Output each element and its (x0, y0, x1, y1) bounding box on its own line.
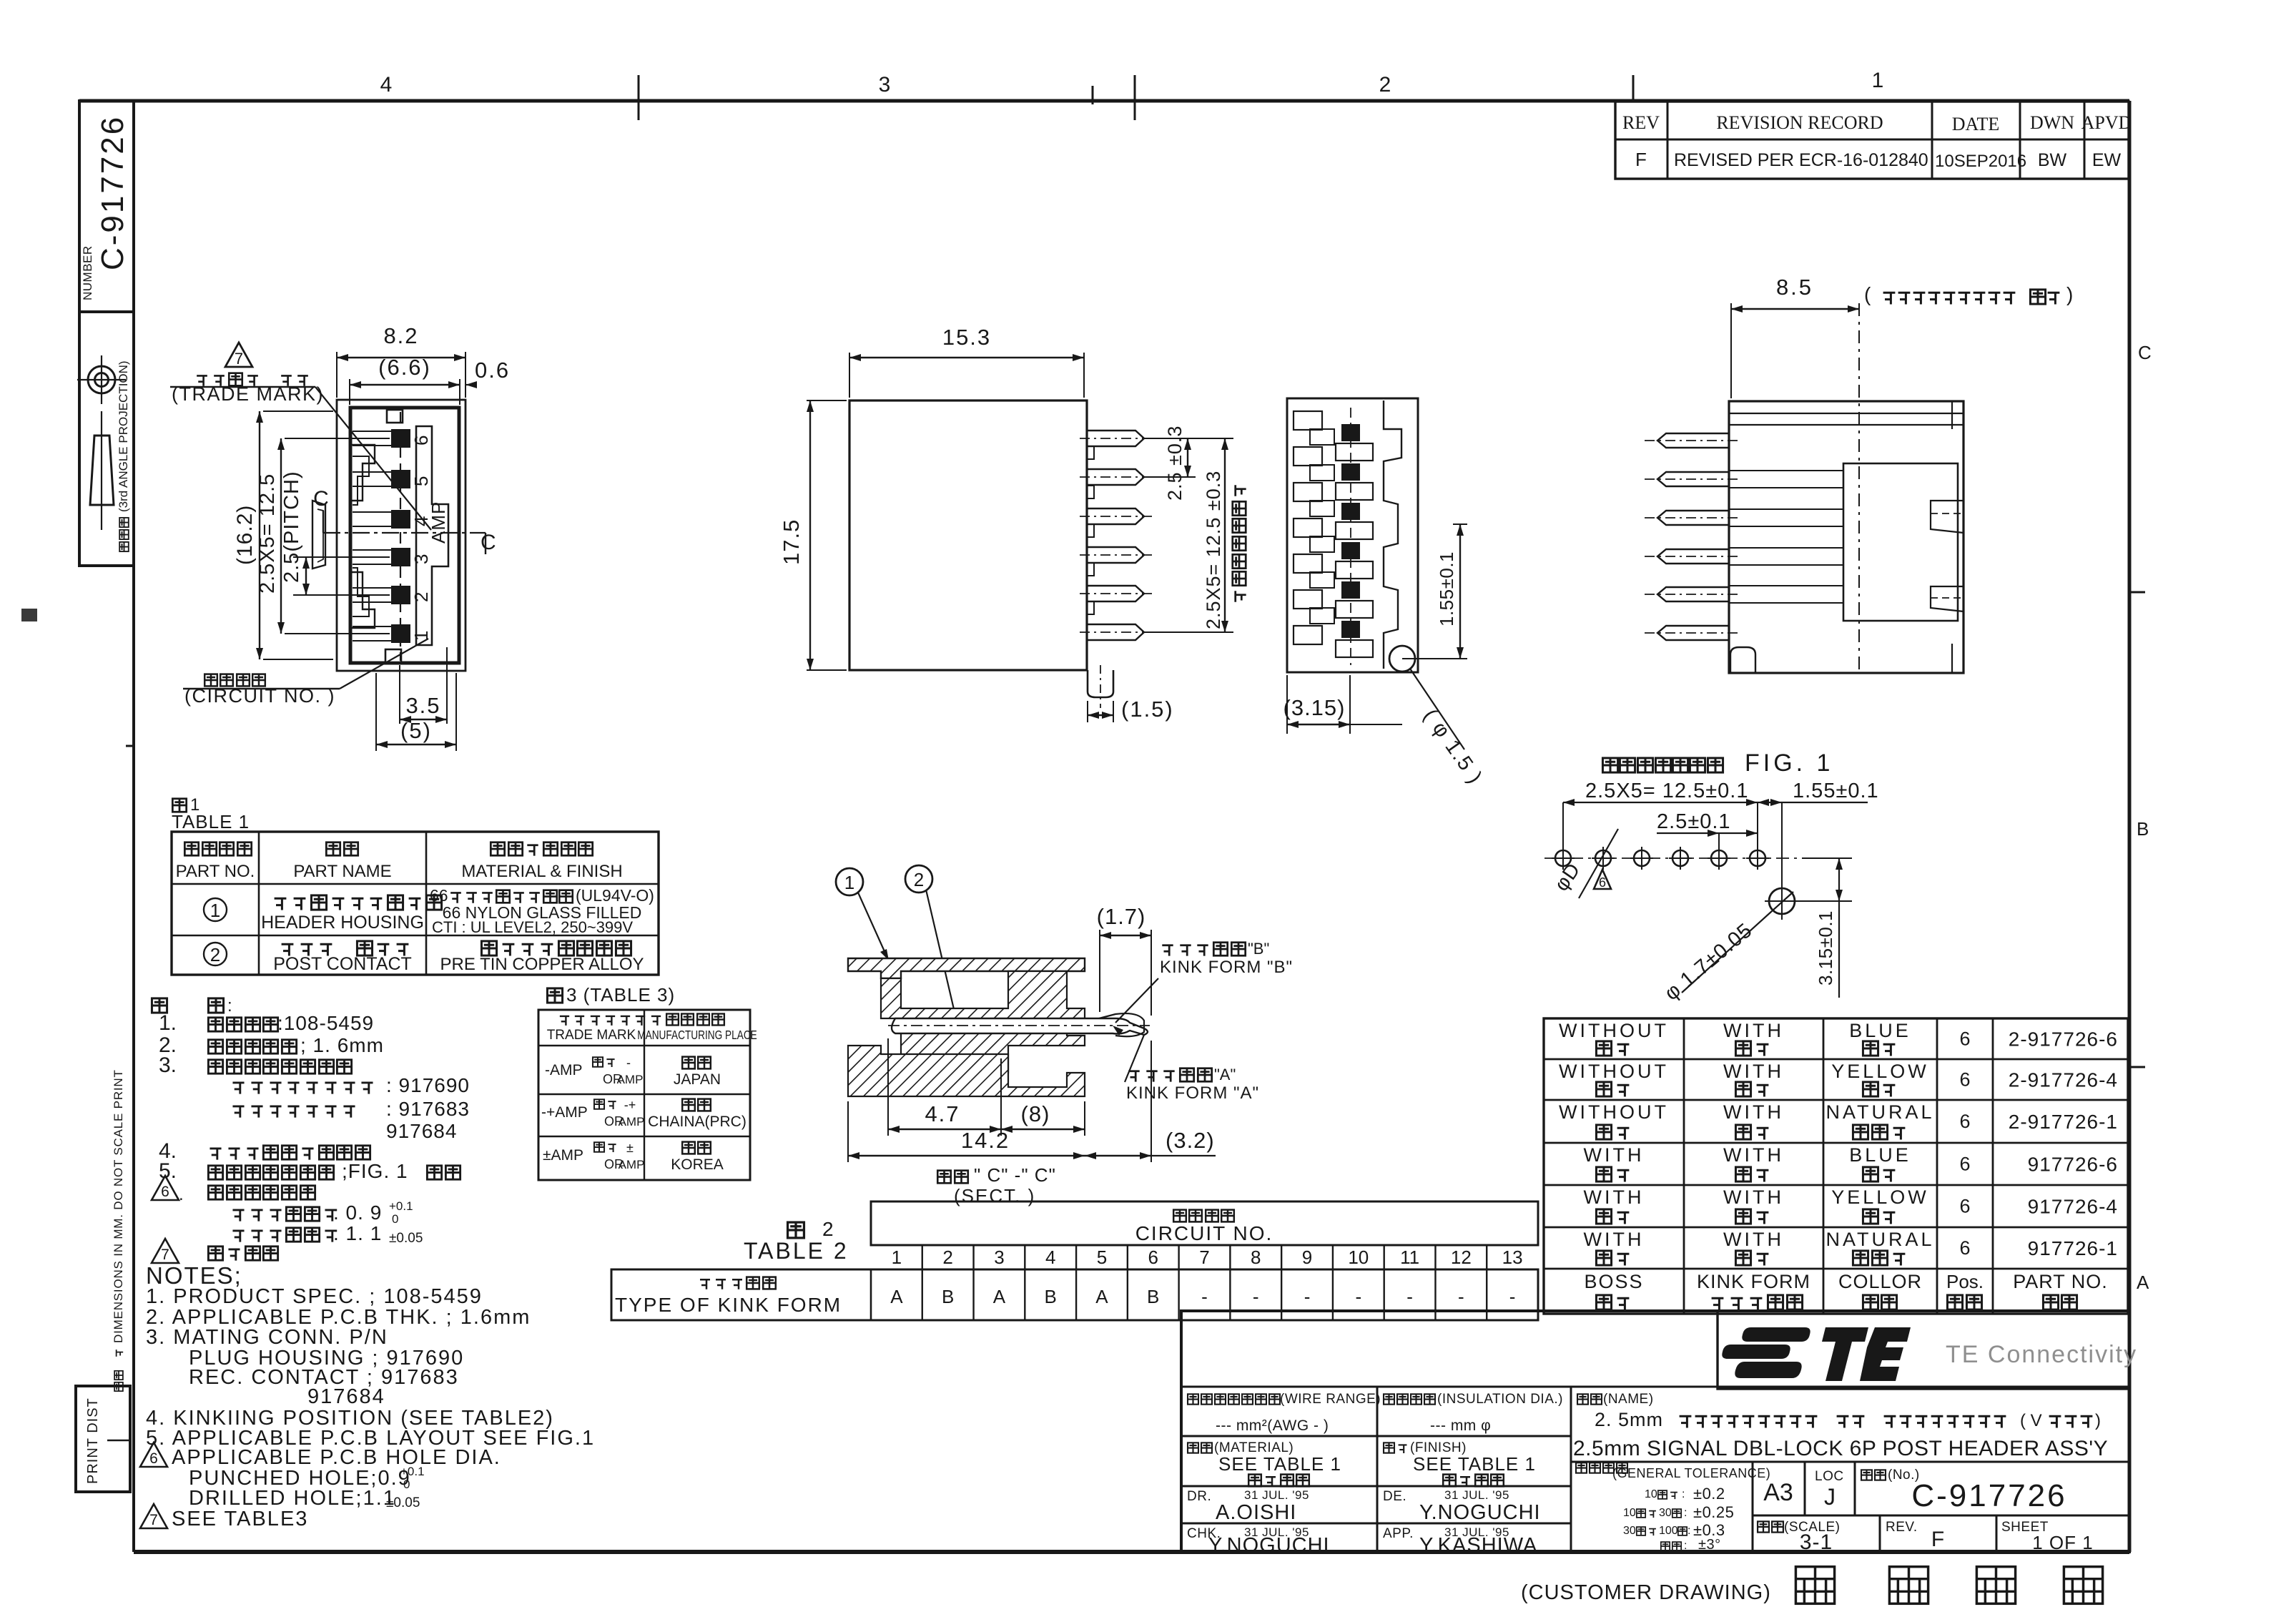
projection symbol cone (90, 436, 114, 505)
svg-text:0: 0 (392, 1212, 398, 1226)
svg-text:4.7: 4.7 (925, 1101, 960, 1126)
svg-text:WITH: WITH (1584, 1186, 1645, 1208)
triangle 7 flag (225, 343, 252, 367)
svg-text::108-5459: :108-5459 (277, 1012, 374, 1034)
svg-text:DIMENSIONS IN MM. DO NOT SCALE: DIMENSIONS IN MM. DO NOT SCALE PRINT (112, 1069, 125, 1343)
scale rev sheet row (1879, 1515, 1881, 1553)
fig1 dim 3.15 vertical (1838, 858, 1840, 998)
svg-text:(1.7): (1.7) (1097, 904, 1146, 929)
svg-text::: : (1682, 1488, 1685, 1500)
notes jp heading (152, 998, 167, 1013)
svg-text:3. MATING CONN. P/N: 3. MATING CONN. P/N (146, 1326, 388, 1349)
third angle projection box (79, 312, 134, 566)
svg-text:2.5X5= 12.5±0.1: 2.5X5= 12.5±0.1 (1585, 780, 1748, 802)
svg-text:B: B (942, 1286, 954, 1307)
svg-text:0.6: 0.6 (475, 358, 510, 383)
svg-text:6: 6 (1599, 875, 1606, 890)
section dim 8 (1001, 1129, 1085, 1130)
svg-text:2-917726-4: 2-917726-4 (2009, 1069, 2118, 1091)
number box strip (79, 101, 134, 312)
svg-text::: : (1684, 1507, 1687, 1519)
view4 top wall lines (1729, 413, 1964, 414)
svg-text:3: 3 (879, 73, 891, 97)
svg-text:-AMP: -AMP (545, 1062, 583, 1078)
view1 dim 12.5 (285, 438, 390, 439)
svg-text:B: B (1045, 1286, 1057, 1307)
svg-text:8.5: 8.5 (1776, 275, 1813, 300)
svg-text:Y.NOGUCHI: Y.NOGUCHI (1419, 1501, 1541, 1524)
print dist box (76, 1386, 130, 1492)
svg-text:6: 6 (410, 436, 432, 446)
svg-text:KINK FORM: KINK FORM (1697, 1271, 1810, 1292)
svg-text:2: 2 (822, 1218, 834, 1240)
svg-text:±0.25: ±0.25 (1693, 1503, 1734, 1521)
view3 rear housing outline (1287, 398, 1418, 672)
view3 left comb slots (1294, 411, 1322, 430)
svg-text:9: 9 (1302, 1247, 1312, 1268)
svg-text:TRADE MARK: TRADE MARK (547, 1028, 636, 1043)
title block outer (1181, 1311, 2129, 1552)
svg-text:7: 7 (1199, 1247, 1209, 1268)
svg-text:C: C (2138, 342, 2152, 363)
svg-text:: 0. 9: : 0. 9 (333, 1201, 382, 1224)
view2 bottom boss (1088, 670, 1113, 697)
svg-text:B: B (2137, 818, 2149, 840)
svg-text:3.5: 3.5 (405, 693, 440, 718)
view2 edge notches between pins (1087, 446, 1094, 459)
view3 phi 1.5 callout (1410, 669, 1464, 749)
svg-text:A3: A3 (1763, 1479, 1793, 1506)
svg-text:(CUSTOMER DRAWING): (CUSTOMER DRAWING) (1521, 1581, 1771, 1604)
svg-text:(16.2): (16.2) (233, 505, 257, 565)
svg-text:( V: ( V (2020, 1411, 2042, 1430)
svg-text:MANUFACTURING PLACE: MANUFACTURING PLACE (637, 1029, 757, 1043)
view1 pin slot lines (353, 431, 391, 432)
svg-text:11: 11 (1400, 1247, 1419, 1268)
svg-text:(WIRE RANGE): (WIRE RANGE) (1280, 1392, 1381, 1407)
svg-text:REV.: REV. (1886, 1520, 1918, 1535)
svg-text:AMP: AMP (619, 1115, 645, 1129)
table1 row1 (204, 898, 227, 921)
svg-text:2: 2 (410, 592, 432, 602)
svg-text:CTI : UL LEVEL2, 250~399V: CTI : UL LEVEL2, 250~399V (432, 918, 633, 936)
svg-text:3-1: 3-1 (1800, 1530, 1833, 1554)
svg-text:917684: 917684 (307, 1385, 385, 1408)
finish cell (1384, 1442, 1394, 1453)
svg-text:SEE TABLE3: SEE TABLE3 (172, 1508, 308, 1530)
svg-text:4: 4 (380, 73, 393, 97)
section pin kink bulge (1099, 1013, 1144, 1036)
svg-text:±3°: ±3° (1698, 1537, 1721, 1553)
svg-text:(5): (5) (400, 718, 432, 743)
view4 pin slots interior (1729, 471, 1843, 488)
view3 dim 1.55 (1402, 658, 1467, 659)
svg-text:17.5: 17.5 (779, 519, 804, 565)
svg-text:PRINT DIST: PRINT DIST (85, 1397, 101, 1484)
view2 dim 12.5 right (1144, 631, 1233, 633)
section dim 4.7 (887, 1038, 889, 1136)
table2 circuit no header box (871, 1201, 1538, 1245)
svg-text:COLLOR: COLLOR (1838, 1271, 1922, 1292)
trade mark callout (197, 375, 207, 385)
section pin contact (892, 1018, 1148, 1035)
svg-text:±0.05: ±0.05 (389, 1231, 423, 1246)
section body top flange hatched (848, 958, 1085, 978)
svg-text:6: 6 (149, 1450, 158, 1467)
svg-text:±AMP: ±AMP (543, 1147, 583, 1164)
wire range cell (1181, 1386, 1718, 1388)
svg-text:--- mm φ: --- mm φ (1430, 1417, 1491, 1434)
table1 header texts (184, 842, 198, 855)
table1 title (172, 799, 186, 812)
svg-text:REVISED PER ECR-16-012840: REVISED PER ECR-16-012840 (1674, 150, 1928, 170)
note jp 6a (232, 1210, 244, 1222)
svg-text:10: 10 (1348, 1247, 1369, 1268)
svg-text:PART NO.: PART NO. (176, 862, 255, 881)
svg-text:: 917683: : 917683 (386, 1098, 470, 1120)
svg-text:C-917726: C-917726 (95, 115, 130, 270)
fig1 triangle 6 flag (1594, 870, 1611, 889)
svg-text:2-917726-6: 2-917726-6 (2009, 1028, 2118, 1051)
view4 right interior tabs (1931, 501, 1964, 533)
svg-text:DATE: DATE (1952, 114, 1999, 134)
view2 dim 1.5 bottom (1087, 701, 1088, 722)
fig1 phi17 callout (1682, 911, 1772, 993)
svg-text:1 OF 1: 1 OF 1 (2032, 1532, 2093, 1553)
svg-text:A: A (993, 1286, 1006, 1307)
table1 row2 (204, 943, 227, 965)
note jp 6 triangle (152, 1176, 179, 1200)
svg-text:6: 6 (1959, 1196, 1970, 1217)
svg-text:"A": "A" (1214, 1066, 1236, 1083)
svg-text:CIRCUIT NO.: CIRCUIT NO. (1135, 1222, 1273, 1244)
te logo TE letters (1822, 1327, 1868, 1381)
svg-text:DRILLED HOLE;1.1: DRILLED HOLE;1.1 (189, 1487, 396, 1510)
svg-text:LOC: LOC (1815, 1469, 1844, 1484)
view4 bottom boss (1730, 647, 1755, 673)
svg-text:A: A (890, 1286, 903, 1307)
svg-text:TABLE 2: TABLE 2 (744, 1238, 849, 1264)
note jp 3b (232, 1106, 244, 1118)
a3 loc no cells (1570, 1462, 1572, 1553)
svg-text:5: 5 (410, 476, 432, 486)
svg-text:J: J (1824, 1484, 1836, 1510)
svg-text:+0.1: +0.1 (400, 1465, 425, 1478)
svg-text:1.55±0.1: 1.55±0.1 (1793, 780, 1879, 802)
svg-text:1: 1 (1872, 69, 1884, 92)
svg-text:NATURAL: NATURAL (1826, 1101, 1934, 1123)
view2 dim 15.3 (849, 353, 850, 398)
svg-text:1. PRODUCT SPEC. ; 108-5459: 1. PRODUCT SPEC. ; 108-5459 (146, 1285, 483, 1308)
svg-text:(NAME): (NAME) (1603, 1392, 1654, 1407)
svg-text:A: A (2137, 1272, 2149, 1293)
view3 dim 3.15 (1286, 675, 1288, 734)
fig1 big hole (1769, 888, 1795, 914)
section dim 3.2 (1151, 1041, 1152, 1162)
svg-text:1: 1 (210, 900, 220, 921)
svg-text:3.: 3. (159, 1053, 177, 1077)
svg-text:1.55±0.1: 1.55±0.1 (1436, 551, 1457, 626)
table3 headers (560, 1016, 569, 1026)
svg-text:+0.1: +0.1 (389, 1199, 413, 1213)
svg-text:KOREA: KOREA (671, 1156, 724, 1173)
svg-text:1: 1 (892, 1247, 902, 1268)
te logo box (1718, 1311, 2129, 1389)
view3 inner comb second col (1310, 429, 1334, 445)
svg-text:(6.6): (6.6) (378, 355, 431, 380)
view1 dim 3.5 bottom (399, 665, 400, 724)
svg-text:YELLOW: YELLOW (1831, 1186, 1929, 1208)
fig1 main dim line (1563, 802, 1868, 803)
svg-text:-: - (626, 1056, 631, 1070)
svg-text:WITH: WITH (1584, 1144, 1645, 1166)
fig1 hole row (1544, 857, 1816, 859)
svg-text:C-917726: C-917726 (1911, 1478, 2066, 1513)
svg-text:WITH: WITH (1723, 1020, 1784, 1041)
svg-text:WITHOUT: WITHOUT (1559, 1061, 1669, 1082)
view3 right wall profile (1384, 400, 1401, 669)
view2 pins right side (1087, 431, 1144, 446)
svg-text:6: 6 (1148, 1247, 1158, 1268)
svg-text:2: 2 (210, 944, 220, 965)
svg-text:6: 6 (1959, 1237, 1970, 1259)
view1 dim (5) bottom (375, 673, 377, 751)
svg-text:2: 2 (1379, 73, 1391, 97)
table2 number row (871, 1244, 1538, 1247)
svg-text:7: 7 (161, 1247, 169, 1263)
svg-text:.: . (179, 1185, 184, 1204)
svg-text:TABLE 1: TABLE 1 (172, 811, 250, 832)
svg-text:C: C (313, 487, 329, 511)
svg-text:31 JUL. '95: 31 JUL. '95 (1244, 1488, 1309, 1502)
dr cell (1181, 1485, 1571, 1488)
material cell (1181, 1435, 1571, 1437)
svg-text:(INSULATION DIA.): (INSULATION DIA.) (1437, 1392, 1563, 1407)
svg-text:-+: -+ (624, 1098, 636, 1112)
svg-text:WITHOUT: WITHOUT (1559, 1020, 1669, 1041)
svg-text:2-917726-1: 2-917726-1 (2009, 1111, 2118, 1133)
svg-text:PART NAME: PART NAME (293, 862, 391, 881)
svg-text:±0.05: ±0.05 (386, 1495, 420, 1510)
svg-text::: : (227, 996, 232, 1016)
svg-text:6: 6 (1959, 1111, 1970, 1132)
svg-text:6: 6 (161, 1184, 169, 1200)
svg-text:-: - (1355, 1286, 1361, 1307)
svg-text:2.5mm SIGNAL DBL-LOCK 6P POST: 2.5mm SIGNAL DBL-LOCK 6P POST HEADER ASS… (1573, 1437, 2108, 1460)
svg-text:BLUE: BLUE (1849, 1144, 1911, 1166)
svg-text:BW: BW (2038, 150, 2067, 170)
svg-text:MATERIAL & FINISH: MATERIAL & FINISH (461, 862, 622, 881)
svg-text:1: 1 (844, 872, 854, 893)
te logo bars (1722, 1327, 1911, 1381)
svg-text:B: B (1147, 1286, 1159, 1307)
svg-text:APVD: APVD (2081, 112, 2132, 133)
svg-text:8.2: 8.2 (383, 323, 418, 348)
svg-text:(: ( (1864, 283, 1871, 305)
svg-text:917684: 917684 (386, 1120, 457, 1142)
zone ticks right border (2129, 591, 2145, 594)
svg-text:DE.: DE. (1383, 1489, 1406, 1504)
svg-text:F: F (1931, 1528, 1944, 1551)
view4 housing body (1729, 401, 1964, 673)
view1 center trapezoid tab (312, 501, 325, 569)
svg-text:(UL94V-O): (UL94V-O) (576, 886, 654, 905)
svg-text:15.3: 15.3 (942, 325, 991, 350)
view1 pin squares 1-6 (391, 429, 410, 448)
table3 title (547, 988, 562, 1003)
svg-text:Y.KASHIWA: Y.KASHIWA (1419, 1534, 1537, 1557)
section body core hatched (881, 971, 1085, 1073)
section view part callout 2 (905, 865, 932, 893)
svg-text:: 917690: : 917690 (386, 1074, 470, 1096)
svg-text:100: 100 (1659, 1525, 1678, 1537)
svg-text:EW: EW (2092, 150, 2122, 170)
view4 right edge step (1951, 401, 1953, 429)
svg-text:5: 5 (1097, 1247, 1107, 1268)
svg-text:2.5 ±0.3: 2.5 ±0.3 (1164, 426, 1186, 501)
svg-text:F: F (1635, 149, 1647, 170)
svg-text:BLUE: BLUE (1849, 1020, 1911, 1041)
view2 housing body (849, 400, 1087, 670)
view1 section line C-C dash-dot (323, 532, 486, 534)
svg-text:AMP: AMP (619, 1158, 645, 1171)
svg-text:30: 30 (1659, 1507, 1672, 1519)
svg-text:30: 30 (1623, 1525, 1636, 1537)
view1 bottom notch (385, 649, 401, 662)
svg-text:" C" -" C": " C" -" C" (974, 1164, 1056, 1186)
svg-text:8: 8 (1251, 1247, 1261, 1268)
svg-text:WITH: WITH (1723, 1186, 1784, 1208)
svg-text:CHAINA(PRC): CHAINA(PRC) (648, 1114, 747, 1130)
svg-text:4: 4 (1045, 1247, 1055, 1268)
view1 dim 16.2 (263, 411, 333, 412)
section body lower wall hatched (848, 1046, 1085, 1096)
svg-text:-: - (1458, 1286, 1464, 1307)
note en 7 triangle (140, 1504, 167, 1528)
svg-text:13: 13 (1502, 1247, 1523, 1268)
svg-text:2.5±0.1: 2.5±0.1 (1657, 810, 1731, 833)
zone ticks top border (638, 75, 640, 120)
view2 dim 17.5 (807, 400, 847, 401)
svg-text:APPLICABLE P.C.B HOLE DIA.: APPLICABLE P.C.B HOLE DIA. (172, 1446, 501, 1469)
circuit no callout (205, 674, 217, 687)
svg-text:KINK FORM "B": KINK FORM "B" (1160, 958, 1293, 977)
svg-text:(3.15): (3.15) (1284, 695, 1346, 720)
svg-text:WITH: WITH (1723, 1101, 1784, 1123)
view1 left mating profile zigzag (350, 445, 375, 501)
view3 center pins alternating (1341, 424, 1360, 441)
view3 bottom circle boss (1389, 646, 1415, 672)
table2 label (788, 1222, 804, 1238)
svg-text:3 (TABLE 3): 3 (TABLE 3) (566, 984, 675, 1006)
svg-text:PRE TIN COPPER ALLOY: PRE TIN COPPER ALLOY (440, 955, 644, 974)
svg-text:-: - (1304, 1286, 1311, 1307)
view4 dim 8.5 (1730, 303, 1732, 398)
zone tick left border (126, 745, 134, 747)
svg-text:10: 10 (1645, 1488, 1657, 1500)
svg-text:7: 7 (149, 1512, 158, 1528)
section title (937, 1171, 950, 1184)
insulation dia cell (1384, 1394, 1394, 1404)
svg-text:14.2: 14.2 (961, 1128, 1010, 1153)
svg-text:Y.NOGUCHI: Y.NOGUCHI (1208, 1534, 1330, 1557)
section kink form A label (1128, 1071, 1139, 1082)
part number table (1544, 1018, 2128, 1314)
view4 pins left side (1657, 433, 1729, 448)
view4 center big slot (1843, 463, 1958, 621)
svg-text::: : (1684, 1540, 1687, 1552)
left margin stray mark (21, 609, 37, 621)
svg-text:YELLOW: YELLOW (1831, 1061, 1929, 1082)
fig1 title jp (1602, 758, 1617, 772)
section dim 14.2 (847, 1101, 849, 1162)
svg-text:6: 6 (1959, 1154, 1970, 1175)
projection symbol circle (88, 366, 115, 393)
svg-text:APP.: APP. (1383, 1526, 1414, 1541)
svg-text:; 1. 6mm: ; 1. 6mm (300, 1034, 384, 1056)
table3 grid (538, 1010, 750, 1180)
svg-text:(3rd ANGLE PROJECTION): (3rd ANGLE PROJECTION) (117, 360, 130, 512)
note en 6 triangle (140, 1442, 167, 1467)
section view part callout 1 (836, 868, 863, 895)
svg-text:WITH: WITH (1584, 1229, 1645, 1250)
svg-text:--- mm²(AWG - ): --- mm²(AWG - ) (1216, 1417, 1329, 1434)
table1 grid (172, 832, 659, 975)
projection jp label (119, 518, 129, 551)
drawing frame border (79, 99, 2129, 103)
svg-text:WITHOUT: WITHOUT (1559, 1101, 1669, 1123)
view2 tolerance note rotated (1233, 485, 1246, 601)
svg-text:PART NO.: PART NO. (2013, 1271, 2108, 1292)
svg-text:A: A (1095, 1286, 1108, 1307)
svg-text:;FIG. 1: ;FIG. 1 (342, 1160, 408, 1182)
svg-text:2: 2 (914, 869, 924, 890)
svg-text:NUMBER: NUMBER (81, 245, 94, 300)
svg-text:HEADER HOUSING: HEADER HOUSING (261, 913, 424, 933)
view1 front view outer housing (337, 400, 465, 671)
chk cell (1181, 1523, 1571, 1525)
fig1 vertical line from 1.55 (1757, 802, 1758, 851)
svg-text:2.5X5= 12.5 ±0.3: 2.5X5= 12.5 ±0.3 (1203, 471, 1224, 629)
svg-text:1.: 1. (159, 1011, 177, 1035)
fig1 hole callout phiD (1579, 829, 1618, 898)
svg-text:(GENERAL TOLERANCE): (GENERAL TOLERANCE) (1612, 1466, 1770, 1480)
svg-text:SEE TABLE 1: SEE TABLE 1 (1413, 1453, 1536, 1475)
svg-text:-: - (1406, 1286, 1413, 1307)
view1 dim 2.5 pitch (293, 556, 390, 558)
svg-text:-: - (1201, 1286, 1208, 1307)
svg-text:2.5(PITCH): 2.5(PITCH) (280, 471, 303, 583)
table2 kink form label box (611, 1269, 1538, 1320)
svg-text:: 1. 1: : 1. 1 (333, 1222, 382, 1244)
svg-text:KINK FORM "A": KINK FORM "A" (1126, 1083, 1259, 1103)
reference drawing kanji (1795, 1567, 1834, 1604)
svg-text:WITH: WITH (1723, 1144, 1784, 1166)
svg-text:C: C (481, 531, 496, 554)
view1 pin centerline dashed (400, 412, 401, 661)
svg-text::: : (1687, 1525, 1690, 1537)
note jp 3a (232, 1083, 244, 1094)
svg-text:TE Connectivity: TE Connectivity (1946, 1341, 2137, 1368)
svg-text:3: 3 (410, 554, 432, 564)
svg-text:31 JUL. '95: 31 JUL. '95 (1444, 1488, 1509, 1502)
svg-text:DWN: DWN (2030, 112, 2074, 133)
svg-text:2. 5mm: 2. 5mm (1595, 1409, 1663, 1430)
svg-text:0: 0 (403, 1478, 410, 1491)
svg-text:AMP: AMP (617, 1073, 644, 1086)
svg-text:(SECT. ): (SECT. ) (954, 1185, 1035, 1206)
svg-text:): ) (2066, 283, 2073, 305)
